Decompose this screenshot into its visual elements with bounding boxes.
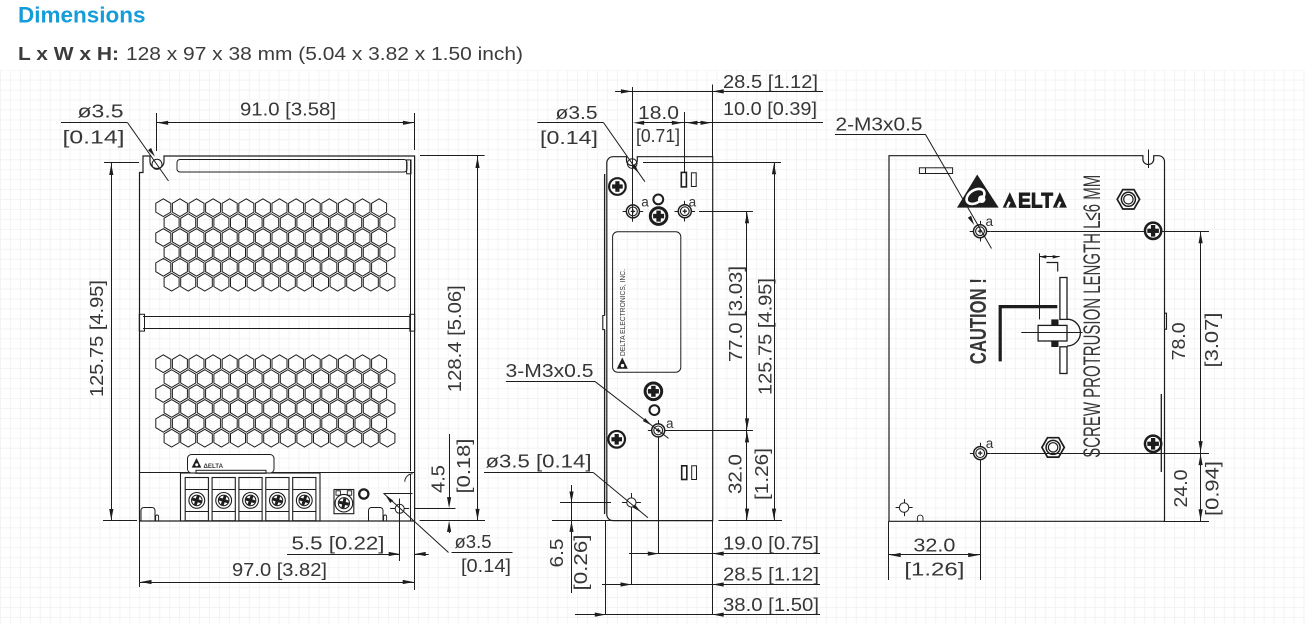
svg-text:L x W x H:: L x W x H: (18, 43, 119, 64)
svg-text:SCREW PROTRUSION LENGTH L≤6 M: SCREW PROTRUSION LENGTH L≤6 MM (1079, 175, 1106, 458)
vent slot D (692, 466, 697, 480)
bracket hole ø3.5 (390, 508, 409, 510)
svg-text:[1.26]: [1.26] (904, 560, 964, 580)
svg-text:[0.14]: [0.14] (461, 556, 511, 576)
top notch pin (1148, 150, 1150, 169)
bottom edge bump (917, 515, 923, 521)
svg-text:ø3.5: ø3.5 (78, 102, 124, 122)
plain hole bottom-left (896, 507, 913, 509)
svg-text:4.5: 4.5 (429, 465, 449, 493)
svg-text:DELTA ELECTRONICS, INC.: DELTA ELECTRONICS, INC. (618, 269, 627, 356)
svg-text:CAUTION !: CAUTION ! (965, 278, 991, 364)
svg-text:32.0: 32.0 (726, 454, 746, 494)
svg-text:28.5 [1.12]: 28.5 [1.12] (723, 565, 819, 585)
svg-text:10.0 [0.39]: 10.0 [0.39] (723, 99, 817, 119)
hex vent panel lower (156, 355, 395, 447)
big phillips screw (650, 208, 667, 225)
svg-text:[0.18]: [0.18] (454, 439, 474, 494)
svg-text:18.0: 18.0 (638, 103, 679, 123)
corner bracket (384, 493, 413, 495)
svg-text:125.75 [4.95]: 125.75 [4.95] (755, 278, 775, 395)
pilot circle (653, 195, 663, 205)
terminal cell 3 (239, 478, 262, 521)
side view body outline (607, 157, 713, 521)
centerline (1021, 332, 1082, 334)
screw a top (970, 231, 991, 233)
right foot (369, 508, 384, 522)
mounting hole top-left (ø3.5) (152, 159, 162, 169)
bottom screw hole (622, 502, 641, 504)
led ring (359, 489, 368, 498)
inner top cover band (177, 160, 407, 173)
svg-text:ELT: ELT (1018, 189, 1053, 213)
svg-text:a: a (641, 195, 649, 210)
vent slot B (691, 173, 696, 187)
lower pilot circle (650, 405, 660, 415)
svg-text:Dimensions: Dimensions (18, 3, 146, 28)
screw a right (675, 211, 696, 213)
svg-text:77.0 [3.03]: 77.0 [3.03] (726, 266, 746, 362)
screw shaft (1038, 325, 1067, 341)
delta label plate (188, 455, 275, 474)
small delta logo (192, 458, 202, 468)
hex vent panel upper (156, 199, 395, 291)
svg-text:3-M3x0.5: 3-M3x0.5 (506, 361, 594, 381)
inner right edge line (410, 160, 412, 471)
svg-text:[0.26]: [0.26] (571, 535, 591, 591)
phillips screw right-top (1145, 223, 1161, 239)
screw head arc (1067, 319, 1080, 346)
svg-text:78.0: 78.0 (1169, 322, 1189, 360)
svg-text:[0.14]: [0.14] (63, 128, 125, 148)
plate upper (1060, 278, 1067, 320)
svg-text:97.0 [3.82]: 97.0 [3.82] (232, 560, 327, 580)
label plate (613, 232, 681, 372)
svg-text:24.0: 24.0 (1171, 470, 1191, 508)
phillips screw right-bottom (1145, 436, 1161, 452)
mounting hole top (ø3.5) (627, 159, 637, 169)
vent slot C (682, 466, 687, 480)
screw a left (623, 211, 644, 213)
svg-text:2-M3x0.5: 2-M3x0.5 (836, 114, 923, 134)
leader to top-left hole (128, 123, 169, 181)
screw a bottom (970, 453, 991, 455)
svg-text:128 x 97 x 38 mm (5.04 x 3.82: 128 x 97 x 38 mm (5.04 x 3.82 x 1.50 inc… (126, 43, 523, 64)
front view body outline (140, 156, 415, 521)
svg-text:6.5: 6.5 (547, 539, 567, 568)
screw centerline top (991, 231, 1210, 233)
svg-text:a: a (986, 214, 994, 229)
svg-text:5.5 [0.22]: 5.5 [0.22] (292, 534, 385, 554)
svg-text:19.0 [0.75]: 19.0 [0.75] (723, 534, 819, 554)
svg-text:a: a (689, 195, 697, 210)
divider band (143, 316, 411, 318)
lower big phillips (645, 383, 662, 400)
terminal cell 1 (185, 478, 208, 521)
plate delta logo (617, 358, 628, 369)
screw a bottom (648, 430, 669, 432)
side flange outer line (604, 174, 606, 316)
delta logo triangle (957, 175, 999, 208)
potentiometer (334, 490, 354, 514)
terminal cell 4 (266, 478, 289, 521)
svg-text:28.5 [1.12]: 28.5 [1.12] (723, 72, 818, 92)
svg-text:ΔELTA: ΔELTA (204, 463, 224, 470)
screw centerline bottom (991, 453, 1209, 455)
svg-text:128.4 [5.06]: 128.4 [5.06] (445, 285, 465, 392)
svg-text:ø3.5: ø3.5 (455, 532, 492, 552)
svg-text:ø3.5 [0.14]: ø3.5 [0.14] (486, 452, 592, 472)
svg-text:a: a (666, 416, 674, 431)
right edge flange line (1160, 394, 1162, 472)
vent slot A (681, 172, 686, 187)
DELTA wordmark (1003, 192, 1017, 208)
back view body outline (889, 156, 1165, 522)
top-left slot (919, 168, 952, 174)
hex nut top (1117, 190, 1139, 209)
plate lower (1060, 347, 1067, 374)
terminal block (181, 473, 321, 521)
svg-text:a: a (986, 436, 994, 451)
svg-text:[1.26]: [1.26] (752, 448, 772, 500)
terminal cell 5 (293, 478, 316, 521)
svg-text:ø3.5: ø3.5 (556, 103, 598, 123)
svg-text:[0.71]: [0.71] (636, 126, 680, 146)
svg-text:[3.07]: [3.07] (1202, 313, 1222, 368)
top plate edge (643, 162, 713, 164)
inner corner arc bottom-right (405, 474, 413, 482)
svg-text:38.0 [1.50]: 38.0 [1.50] (723, 595, 819, 615)
leader from bracket hole (384, 493, 449, 552)
svg-text:32.0: 32.0 (913, 536, 955, 556)
screw protrusion diagram (1000, 253, 1082, 373)
svg-text:[0.14]: [0.14] (540, 128, 598, 148)
phillips screw top-left (609, 178, 626, 195)
terminal cell 2 (212, 478, 235, 521)
right edge tab (1165, 313, 1167, 329)
screw flanges (1051, 319, 1058, 325)
inner right edge lower (410, 474, 412, 521)
svg-text:[0.94]: [0.94] (1202, 461, 1222, 516)
band end cap (407, 160, 411, 174)
chassis wall thick L (1000, 307, 1057, 362)
svg-text:125.75 [4.95]: 125.75 [4.95] (87, 280, 107, 397)
bottom section line (140, 472, 415, 474)
left foot (141, 508, 155, 522)
phillips screw bottom-left (608, 431, 625, 448)
svg-text:91.0 [3.58]: 91.0 [3.58] (240, 100, 336, 120)
hex nut bottom (1042, 438, 1064, 457)
